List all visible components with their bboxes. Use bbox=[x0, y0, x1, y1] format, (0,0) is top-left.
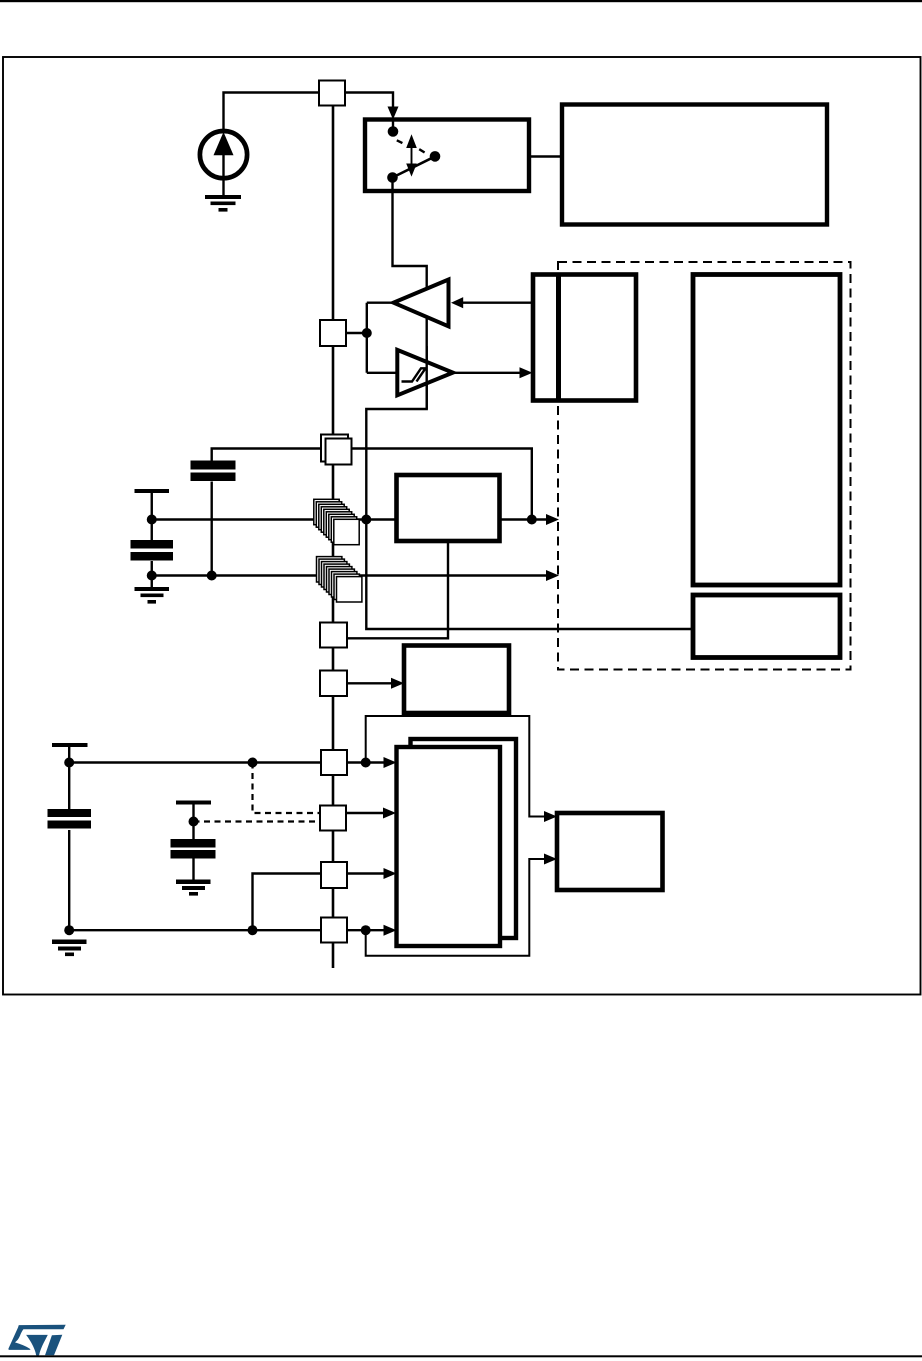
node C2 lower bbox=[207, 571, 217, 581]
header rule bbox=[0, 0, 922, 2]
arrowhead into mux lower bbox=[544, 854, 557, 865]
pin E bbox=[321, 862, 347, 888]
node C4 bottom bbox=[64, 925, 74, 935]
serial interface routing upper bbox=[366, 716, 545, 817]
switch actuation double arrow bbox=[406, 134, 417, 176]
clock block bbox=[404, 646, 509, 714]
wire from current source to pin 1 bbox=[224, 93, 320, 132]
ground below C3 bbox=[176, 880, 211, 896]
switch dashed throw bbox=[397, 140, 425, 152]
supply tee C1 bbox=[135, 489, 170, 493]
reference block bbox=[397, 475, 500, 541]
comparator output wire bbox=[453, 372, 521, 374]
arrowhead into mux upper bbox=[544, 811, 557, 822]
ground below current source bbox=[205, 195, 241, 212]
node dashed branch bbox=[248, 758, 258, 768]
dashed branch to pin D bbox=[253, 763, 321, 814]
capacitor C4 bbox=[48, 809, 92, 829]
pin2 junction node bbox=[362, 328, 372, 338]
serial interface routing lower bbox=[366, 859, 545, 956]
node pin E join bbox=[248, 925, 258, 935]
node C1 upper bbox=[147, 515, 157, 525]
node interface upper bbox=[361, 758, 371, 768]
top-right block bbox=[562, 105, 827, 225]
main pin rail bbox=[332, 105, 335, 968]
arrowhead pin D into interface bbox=[383, 808, 396, 819]
node reference output bbox=[527, 515, 537, 525]
wire pin3 to reference node bbox=[352, 449, 532, 520]
node interface lower bbox=[361, 925, 371, 935]
ST logo bbox=[8, 1325, 65, 1356]
C4 leads bbox=[68, 747, 70, 930]
pin 4 bbox=[320, 623, 347, 648]
C3 leads bbox=[192, 804, 194, 880]
pin 3 (stacked) bbox=[321, 435, 352, 465]
buffer amplifier (left-pointing) bbox=[394, 280, 449, 327]
switch node bottom bbox=[387, 172, 398, 183]
vertical line through comparator (self test) bbox=[426, 346, 428, 409]
node stack output bbox=[361, 515, 371, 525]
ground below C4 bbox=[52, 940, 87, 957]
node C1 lower bbox=[147, 571, 157, 581]
self-test routing wire (switch to reference rail) bbox=[366, 189, 693, 629]
wire pin F to interface bbox=[347, 929, 385, 931]
mux block bbox=[557, 813, 663, 890]
pin F bbox=[321, 918, 347, 943]
footer rule bbox=[0, 1355, 922, 1357]
wire supply to pin C bbox=[69, 761, 321, 763]
converter block divider bbox=[556, 275, 561, 401]
arrowhead pin E into interface bbox=[384, 868, 397, 879]
capacitor C1 bbox=[131, 540, 174, 561]
reference wire upper bbox=[152, 518, 546, 520]
arrowhead reference into dashed area bbox=[546, 514, 559, 525]
pin C bbox=[321, 750, 347, 775]
pin 5 bbox=[320, 671, 347, 697]
wire pin 5 to clock block bbox=[347, 682, 391, 684]
supply tee C4 bbox=[52, 743, 88, 747]
tall control block bbox=[693, 275, 840, 586]
wire pin C to interface bbox=[347, 761, 385, 763]
arrowhead into buffer bbox=[451, 297, 463, 308]
switch bottom throw stub bbox=[391, 120, 394, 191]
capacitor C2 bbox=[191, 461, 236, 482]
switch node common bbox=[430, 151, 441, 162]
pin 2 bbox=[320, 320, 346, 346]
converter block on dashed boundary bbox=[533, 275, 636, 401]
hysteresis comparator (right-pointing) bbox=[397, 350, 453, 395]
wire feedback from converter to buffer bbox=[462, 302, 533, 304]
interface block shadow bbox=[411, 739, 517, 938]
switch box bbox=[365, 120, 529, 192]
pin D bbox=[320, 806, 346, 831]
decoupling capacitor C2 wire bbox=[212, 449, 321, 576]
current source I1 bbox=[200, 131, 247, 196]
C1 top lead bbox=[151, 493, 153, 587]
reserved pin stack lower bbox=[317, 557, 362, 602]
arrowhead into clock block bbox=[391, 678, 404, 689]
reserved pin stack upper bbox=[314, 499, 359, 544]
arrowhead into switch box bbox=[388, 107, 399, 120]
reference wire lower bbox=[152, 574, 546, 576]
lower right block in dashed area bbox=[693, 595, 840, 658]
pin 1 bbox=[319, 81, 345, 106]
node C4 top bbox=[64, 758, 74, 768]
wire pin2 node to amplifier and comparator bbox=[346, 303, 397, 373]
figure frame bbox=[3, 57, 921, 995]
arrowhead lower reference into dashed area bbox=[546, 570, 559, 581]
wire reference block to pin 4 bbox=[347, 541, 448, 638]
switch lever bbox=[393, 156, 436, 177]
wire from pin 1 to switch box bbox=[345, 93, 393, 109]
capacitor C3 bbox=[171, 839, 216, 859]
dashed wire C3 to pin D bbox=[194, 820, 321, 822]
supply tee C3 bbox=[176, 801, 211, 805]
wire pin D to interface bbox=[346, 812, 385, 814]
ground below C1 bbox=[135, 587, 170, 604]
dashed digital-section boundary bbox=[558, 262, 851, 670]
hysteresis symbol bbox=[402, 368, 427, 381]
arrowhead pin C into interface bbox=[384, 757, 397, 768]
arrowhead into converter block bbox=[520, 367, 533, 378]
interface block bbox=[397, 747, 501, 946]
arrowhead pin F into interface bbox=[384, 925, 397, 936]
switch node top bbox=[388, 126, 399, 137]
wire from switch output to top-right block bbox=[434, 155, 562, 157]
wire pin E to interface bbox=[347, 872, 385, 874]
wire ground to pin F bbox=[69, 929, 321, 931]
node C3 bbox=[189, 817, 199, 827]
wire pin E branch bbox=[253, 874, 322, 931]
